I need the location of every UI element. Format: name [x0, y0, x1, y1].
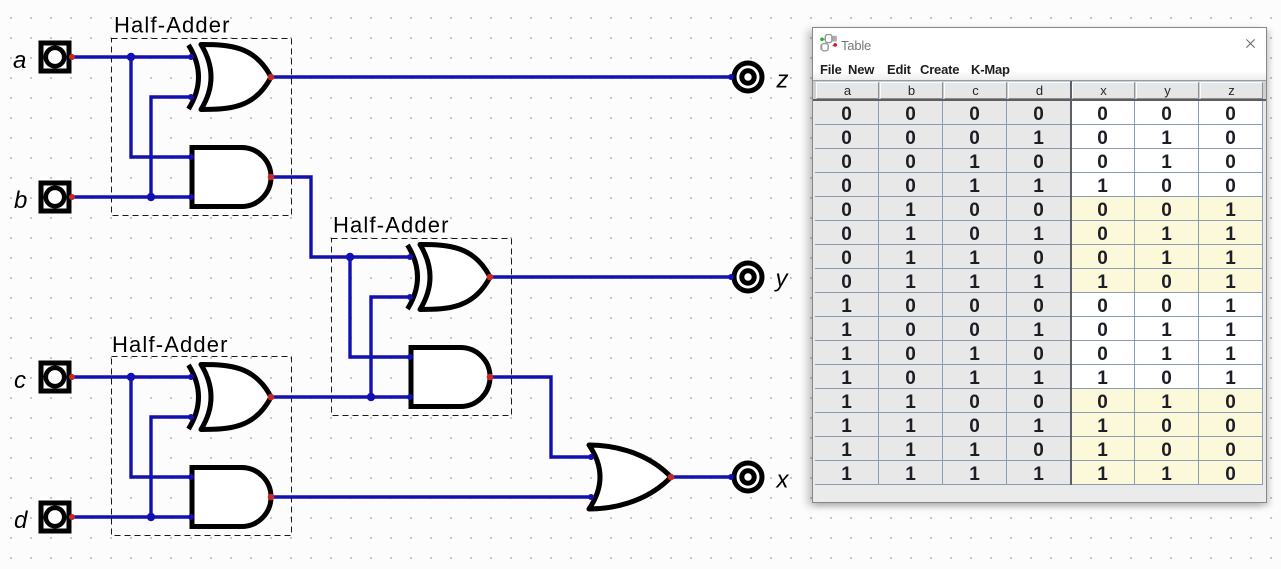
svg-text:y: y — [774, 266, 790, 293]
wire AND2 output to OR1 input 1 — [490, 377, 591, 457]
wire OR1 output to pin x — [671, 475, 731, 478]
wire end — [407, 254, 413, 260]
wire XOR2 output to pin y — [490, 275, 731, 278]
input pin d — [41, 503, 69, 531]
half-adder 3 dashed boundary — [112, 357, 292, 536]
svg-text:x: x — [776, 467, 790, 494]
wire junction — [147, 193, 155, 201]
output pin z — [734, 63, 762, 91]
XOR gate of half-adder 3 (sum c+d) — [189, 365, 272, 430]
svg-text:d: d — [14, 507, 28, 534]
AND gate of half-adder 3 (carry c·d) — [192, 468, 271, 527]
wire end — [407, 394, 413, 400]
wire XOR3 output to AND2 input 2 — [271, 395, 410, 398]
wire AND1 output to XOR2 input 1 — [271, 177, 410, 257]
svg-text:b: b — [14, 187, 27, 214]
XOR gate of half-adder 1 (sum a+b) — [189, 45, 272, 110]
XOR3 output port — [268, 394, 275, 401]
wire end — [188, 154, 194, 160]
svg-text:c: c — [14, 367, 26, 394]
wire end — [407, 354, 413, 360]
wire end — [728, 274, 734, 280]
wire end — [188, 474, 194, 480]
output pin x — [734, 463, 762, 491]
svg-text:Half-Adder: Half-Adder — [114, 13, 231, 38]
wire end — [588, 494, 594, 500]
wire end — [188, 514, 194, 520]
wire b to AND1 input 2 — [72, 195, 191, 198]
AND gate of half-adder 1 (carry a·b) — [192, 148, 271, 207]
AND3 output port — [268, 494, 275, 501]
wire junction — [346, 253, 354, 261]
pin a port — [69, 54, 75, 60]
svg-text:Half-Adder: Half-Adder — [112, 332, 229, 357]
AND gate of half-adder 2 (carry) — [411, 348, 490, 407]
wire AND3 output to OR1 input 2 — [271, 495, 591, 498]
AND1 output port — [268, 174, 275, 181]
wire end — [188, 414, 194, 420]
wire c branch to AND3 input 1 — [131, 377, 191, 477]
AND2 output port — [487, 374, 494, 381]
wire b branch to XOR1 input 2 — [151, 97, 191, 197]
XOR2 output port — [487, 274, 494, 281]
XOR1 output port — [268, 74, 275, 81]
wire end — [188, 94, 194, 100]
wire a branch to AND1 input 1 — [131, 57, 191, 157]
input pin c — [41, 363, 69, 391]
wire end — [407, 294, 413, 300]
svg-text:a: a — [13, 47, 26, 74]
truth table window — [812, 27, 1267, 503]
half-adder 1 dashed boundary — [112, 39, 292, 216]
wire end — [188, 194, 194, 200]
wire a to XOR1 input 1 — [72, 55, 191, 58]
pin c port — [69, 374, 75, 380]
wire junction — [127, 53, 135, 61]
wire end — [728, 74, 734, 80]
wire d to AND3 input 2 — [72, 515, 191, 518]
wire XOR1 output to pin z — [271, 75, 731, 78]
output pin y — [734, 263, 762, 291]
wire end — [188, 54, 194, 60]
pin d port — [69, 514, 75, 520]
svg-text:z: z — [776, 67, 789, 94]
svg-text:Half-Adder: Half-Adder — [333, 213, 450, 238]
half-adder 2 dashed boundary — [332, 239, 512, 416]
wire branch to AND2 input 1 — [350, 257, 410, 357]
input pin b — [41, 183, 69, 211]
wire junction — [367, 393, 375, 401]
wire junction — [127, 373, 135, 381]
wire end — [188, 374, 194, 380]
wire junction — [147, 513, 155, 521]
input pin a — [41, 43, 69, 71]
OR1 output port — [668, 474, 675, 481]
wire end — [728, 474, 734, 480]
pin b port — [69, 194, 75, 200]
OR gate combining carries — [589, 445, 671, 509]
wire c to XOR3 input 1 — [72, 375, 191, 378]
wire branch to XOR2 input 2 — [371, 297, 410, 397]
wire d branch to XOR3 input 2 — [151, 417, 191, 517]
wire end — [588, 454, 594, 460]
XOR gate of half-adder 2 (sum) — [408, 245, 491, 310]
